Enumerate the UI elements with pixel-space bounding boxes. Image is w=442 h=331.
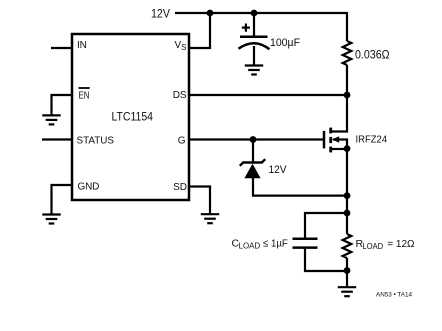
wire resistor bottom to drain node [346,65,348,95]
resistor R1 0.036 ohm zigzag [343,41,352,65]
ground (SD pin) [201,214,219,223]
svg-text:EN: EN [79,91,90,102]
svg-text:LOAD: LOAD [363,242,384,251]
wire RLOAD bottom to ground [346,258,348,287]
svg-text:GND: GND [78,181,100,192]
svg-text:IRFZ24: IRFZ24 [356,134,388,145]
svg-text:100µF: 100µF [270,37,300,49]
ground (load) [338,287,356,296]
wire STATUS stub [42,138,72,140]
wire DS pin to drain node [189,94,347,96]
svg-text:= 12Ω: = 12Ω [387,238,414,250]
capacitor C1 curved bottom plate [239,43,270,49]
op-amp U1 LTC1154 IC body [72,34,189,200]
wire SD pin to ground [189,187,210,215]
wire G pin to MOSFET gate [189,138,324,140]
svg-text:12V: 12V [269,164,288,176]
node junction dot at CLOAD top [344,210,351,217]
transistor Q1 body connection with arrow [333,140,347,149]
svg-text:IN: IN [77,40,87,51]
transistor Q1 source connection [332,148,348,150]
node junction dot at CLOAD bottom [344,267,351,274]
svg-text:VS: VS [175,40,187,52]
node junction dot zener return [344,192,351,199]
svg-text:12V: 12V [151,8,170,20]
zener diode D1 cathode wire [252,140,254,162]
svg-text:STATUS: STATUS [77,135,115,146]
zener diode D1 cathode bar with bent ends [240,159,265,166]
transistor Q1 channel dashes [329,128,332,153]
capacitor C1 100uF polarized, straight top plate [240,35,268,38]
transistor Q1 IRFZ24 gate bar [323,131,326,149]
svg-text:G: G [178,135,186,146]
wire CLOAD bottom branch [305,248,347,271]
wire capacitor branch [253,13,255,37]
wire IN stub [51,47,72,49]
svg-text:AN53 • TA14: AN53 • TA14 [376,292,413,299]
plus sign of capacitor [242,24,250,32]
wire capacitor to ground [253,46,255,66]
capacitor C2 CLOAD bottom plate [293,246,318,249]
node junction dot at capacitor branch [251,10,258,17]
node junction dot at VS branch [207,10,214,17]
node junction dot at source [344,145,351,152]
wire source line down to load [346,149,348,234]
ground (EN pin) [42,115,60,124]
transistor Q1 drain connection [332,95,348,132]
ground (capacitor) [245,66,263,75]
node junction dot at drain sense [344,92,351,99]
wire VS branch [189,13,210,48]
svg-text:0.036Ω: 0.036Ω [355,50,390,62]
resistor R2 RLOAD zigzag [343,234,352,258]
wire CLOAD top branch [305,213,347,238]
overline on EN [79,87,90,89]
svg-text:≤ 1µF: ≤ 1µF [263,238,288,250]
svg-text:SD: SD [173,182,187,193]
wire zener anode to source line [253,178,347,196]
wire EN to ground [52,95,73,115]
node junction dot at zener branch [250,136,257,143]
zener diode D1 anode triangle [244,164,260,179]
svg-text:LTC1154: LTC1154 [112,109,154,123]
capacitor C2 CLOAD top plate [293,238,318,241]
svg-text:LOAD: LOAD [239,242,261,251]
ground (GND pin) [42,215,60,224]
wire 12V top rail, down to resistor R1 [175,13,347,41]
transistor Q1 body arrow head [332,136,339,143]
wire GND pin to ground [52,185,73,215]
svg-text:DS: DS [173,90,187,101]
